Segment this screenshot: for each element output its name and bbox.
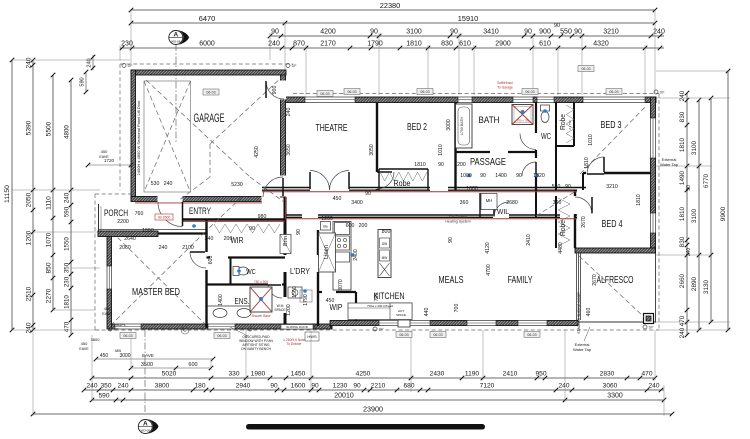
svg-text:06-03: 06-03 xyxy=(581,67,590,71)
svg-text:470: 470 xyxy=(679,315,686,326)
svg-text:440: 440 xyxy=(424,308,430,317)
svg-text:3210: 3210 xyxy=(603,29,619,36)
svg-text:15910: 15910 xyxy=(458,14,479,23)
svg-text:2170: 2170 xyxy=(320,41,336,48)
svg-text:THEATRE: THEATRE xyxy=(316,123,348,134)
svg-text:4800: 4800 xyxy=(64,125,71,139)
svg-text:To Garage: To Garage xyxy=(497,86,513,90)
svg-text:DP: DP xyxy=(649,326,655,330)
svg-text:BATH: BATH xyxy=(479,115,500,126)
svg-text:GARAGE: GARAGE xyxy=(194,111,225,125)
svg-text:6470: 6470 xyxy=(199,14,215,23)
svg-text:BED 3: BED 3 xyxy=(601,120,622,131)
svg-text:830: 830 xyxy=(441,41,453,48)
svg-text:240: 240 xyxy=(64,192,71,203)
svg-text:3210: 3210 xyxy=(606,184,618,190)
svg-text:4700: 4700 xyxy=(486,264,492,276)
svg-text:600: 600 xyxy=(208,256,214,265)
svg-text:850: 850 xyxy=(46,262,53,273)
svg-text:06-03: 06-03 xyxy=(527,333,536,337)
svg-text:2210: 2210 xyxy=(371,383,386,390)
svg-text:ENTRY: ENTRY xyxy=(189,206,211,216)
svg-text:90: 90 xyxy=(438,162,444,168)
svg-text:2510: 2510 xyxy=(26,286,33,301)
svg-text:1400: 1400 xyxy=(495,173,507,179)
svg-text:3000: 3000 xyxy=(119,353,130,359)
svg-text:3400: 3400 xyxy=(351,200,363,206)
svg-text:5020: 5020 xyxy=(162,371,177,378)
svg-text:06-03: 06-03 xyxy=(609,90,618,94)
svg-text:Water Tap: Water Tap xyxy=(573,347,592,352)
svg-text:3100: 3100 xyxy=(691,208,698,223)
svg-text:ENS.: ENS. xyxy=(235,296,250,306)
svg-text:DW: DW xyxy=(382,242,387,246)
svg-text:450: 450 xyxy=(333,196,342,202)
svg-text:4250: 4250 xyxy=(254,146,260,158)
svg-text:590: 590 xyxy=(80,77,86,86)
svg-text:700w x 290 O/head: 700w x 290 O/head xyxy=(367,304,393,308)
svg-text:750 x 750: 750 x 750 xyxy=(517,119,530,123)
svg-text:STACKER SLIDING DOOR: STACKER SLIDING DOOR xyxy=(577,292,581,334)
svg-text:1820: 1820 xyxy=(533,173,545,179)
svg-text:ALFRESCO: ALFRESCO xyxy=(597,275,634,286)
svg-text:90: 90 xyxy=(249,226,255,232)
svg-text:1560: 1560 xyxy=(292,286,298,298)
svg-text:2060: 2060 xyxy=(119,245,131,251)
svg-text:90: 90 xyxy=(296,229,302,235)
svg-text:1810: 1810 xyxy=(414,162,426,168)
svg-text:3500: 3500 xyxy=(141,362,153,368)
svg-text:90: 90 xyxy=(365,191,371,197)
svg-text:240: 240 xyxy=(87,58,93,67)
svg-text:G: G xyxy=(183,328,187,333)
svg-text:90: 90 xyxy=(554,23,560,29)
svg-text:3070: 3070 xyxy=(338,279,344,291)
svg-text:WC: WC xyxy=(246,267,256,276)
svg-text:240: 240 xyxy=(679,90,686,101)
svg-text:90: 90 xyxy=(353,383,361,390)
svg-text:550: 550 xyxy=(560,29,572,36)
svg-text:1810: 1810 xyxy=(584,157,590,169)
svg-text:90: 90 xyxy=(516,173,522,179)
svg-text:06-03: 06-03 xyxy=(433,333,442,337)
svg-text:MW: MW xyxy=(382,256,388,260)
svg-text:3300: 3300 xyxy=(607,393,623,400)
svg-text:2100: 2100 xyxy=(182,245,194,251)
svg-text:530: 530 xyxy=(151,181,160,187)
svg-text:360: 360 xyxy=(553,200,562,206)
svg-text:DP: DP xyxy=(254,328,260,332)
svg-text:Soffit/Insul: Soffit/Insul xyxy=(497,81,513,85)
svg-text:1010: 1010 xyxy=(438,144,444,156)
svg-text:240: 240 xyxy=(648,383,659,390)
svg-text:240: 240 xyxy=(558,383,569,390)
svg-text:2890: 2890 xyxy=(691,276,698,291)
svg-text:470: 470 xyxy=(641,371,652,378)
svg-text:1810: 1810 xyxy=(64,295,71,309)
svg-text:240: 240 xyxy=(26,322,33,333)
svg-text:590: 590 xyxy=(64,206,71,217)
svg-text:240: 240 xyxy=(159,245,168,251)
svg-text:DP: DP xyxy=(128,64,134,68)
svg-text:980: 980 xyxy=(258,214,267,220)
svg-text:9900: 9900 xyxy=(720,206,727,221)
svg-text:3100: 3100 xyxy=(406,29,422,36)
svg-text:1230: 1230 xyxy=(333,383,348,390)
svg-text:FAMILY: FAMILY xyxy=(508,275,533,286)
svg-text:1550: 1550 xyxy=(142,228,154,234)
svg-text:11150: 11150 xyxy=(4,185,11,203)
svg-text:240: 240 xyxy=(679,327,686,338)
svg-text:20010: 20010 xyxy=(334,393,354,400)
svg-text:600: 600 xyxy=(188,362,197,368)
svg-text:90: 90 xyxy=(270,383,278,390)
svg-text:830: 830 xyxy=(679,236,686,247)
svg-text:Shower Base: Shower Base xyxy=(252,314,271,318)
svg-text:90: 90 xyxy=(450,29,458,36)
svg-text:2 x 750: 2 x 750 xyxy=(568,120,572,130)
svg-text:DP: DP xyxy=(660,91,666,95)
svg-text:450: 450 xyxy=(326,298,335,304)
svg-text:450: 450 xyxy=(101,149,108,154)
svg-text:5500: 5500 xyxy=(46,121,53,136)
svg-text:SPACE: SPACE xyxy=(274,308,286,312)
svg-text:90: 90 xyxy=(271,29,279,36)
svg-text:MEALS: MEALS xyxy=(439,275,464,286)
svg-text:DP: DP xyxy=(292,64,298,68)
svg-text:5390: 5390 xyxy=(26,120,33,135)
svg-text:To Drawer: To Drawer xyxy=(286,342,302,346)
svg-text:6770: 6770 xyxy=(703,173,710,188)
svg-text:WD-08: WD-08 xyxy=(171,40,181,44)
svg-text:240: 240 xyxy=(117,383,128,390)
svg-text:460: 460 xyxy=(586,308,592,317)
svg-text:90: 90 xyxy=(686,185,692,191)
svg-text:450: 450 xyxy=(81,341,88,346)
svg-text:06-03: 06-03 xyxy=(525,90,534,94)
svg-text:1010: 1010 xyxy=(588,134,594,146)
svg-text:06-03: 06-03 xyxy=(420,90,429,94)
svg-text:200: 200 xyxy=(224,236,233,242)
svg-text:HB&Ps: HB&Ps xyxy=(115,323,126,327)
svg-text:1490: 1490 xyxy=(679,170,686,185)
svg-text:2640: 2640 xyxy=(124,236,136,242)
svg-text:950: 950 xyxy=(535,371,546,378)
svg-text:90: 90 xyxy=(370,29,378,36)
svg-text:06-03: 06-03 xyxy=(217,334,226,338)
svg-text:3800: 3800 xyxy=(155,383,170,390)
svg-text:240: 240 xyxy=(26,57,33,68)
svg-text:BED 2: BED 2 xyxy=(407,122,427,133)
svg-text:4480: 4480 xyxy=(558,242,564,254)
svg-text:700: 700 xyxy=(454,304,460,313)
svg-text:2900: 2900 xyxy=(495,41,511,48)
svg-text:1110: 1110 xyxy=(46,196,53,210)
svg-text:7120: 7120 xyxy=(480,383,495,390)
svg-text:2670: 2670 xyxy=(592,274,598,286)
svg-text:870: 870 xyxy=(293,41,305,48)
svg-text:2400H x 4800 W Sectional Panel: 2400H x 4800 W Sectional Panel Lift Door xyxy=(136,100,141,176)
svg-text:2430: 2430 xyxy=(430,371,445,378)
svg-text:MH: MH xyxy=(486,198,493,203)
svg-text:4250: 4250 xyxy=(356,371,371,378)
svg-text:SLIDING DOOR: SLIDING DOOR xyxy=(286,325,309,329)
svg-text:DP: DP xyxy=(114,328,120,332)
svg-text:3650: 3650 xyxy=(286,144,292,156)
svg-text:1600: 1600 xyxy=(291,383,306,390)
svg-text:1450: 1450 xyxy=(291,371,306,378)
svg-text:ON VANITY BENCH: ON VANITY BENCH xyxy=(241,347,272,351)
svg-text:180: 180 xyxy=(194,383,205,390)
svg-text:900: 900 xyxy=(272,86,278,95)
svg-text:1550: 1550 xyxy=(64,237,71,251)
svg-text:Water Tap: Water Tap xyxy=(660,162,679,167)
svg-text:SPACE: SPACE xyxy=(396,313,406,317)
svg-text:1200: 1200 xyxy=(321,216,333,222)
svg-text:06-03: 06-03 xyxy=(206,91,215,95)
svg-text:1400: 1400 xyxy=(218,294,224,306)
svg-text:EAVE: EAVE xyxy=(142,353,154,358)
svg-text:90: 90 xyxy=(480,173,486,179)
svg-text:610: 610 xyxy=(459,41,471,48)
svg-text:06-03: 06-03 xyxy=(347,90,356,94)
svg-text:06-03: 06-03 xyxy=(320,92,329,96)
svg-text:450: 450 xyxy=(104,306,111,311)
svg-text:2830: 2830 xyxy=(600,371,615,378)
svg-text:3050: 3050 xyxy=(369,144,375,156)
svg-text:2670: 2670 xyxy=(581,216,587,228)
svg-text:200: 200 xyxy=(359,223,368,229)
svg-text:3100: 3100 xyxy=(691,140,698,155)
svg-text:1200: 1200 xyxy=(286,304,292,316)
svg-text:1810: 1810 xyxy=(679,206,686,221)
svg-text:Linen: Linen xyxy=(324,245,330,259)
svg-text:Robe: Robe xyxy=(558,220,567,236)
svg-text:2400: 2400 xyxy=(353,249,359,261)
svg-text:PASSAGE: PASSAGE xyxy=(470,157,506,168)
svg-text:L'DRY: L'DRY xyxy=(290,266,310,276)
svg-text:700: 700 xyxy=(374,293,380,302)
svg-text:3130: 3130 xyxy=(703,279,710,294)
svg-text:6000: 6000 xyxy=(199,41,215,48)
svg-text:Brm: Brm xyxy=(283,236,289,247)
svg-text:680: 680 xyxy=(403,383,414,390)
svg-text:1700 BATH: 1700 BATH xyxy=(460,116,464,135)
svg-text:Robe: Robe xyxy=(394,178,411,188)
svg-text:2200: 2200 xyxy=(117,219,129,225)
svg-text:06-03: 06-03 xyxy=(123,334,132,338)
svg-text:350: 350 xyxy=(100,383,111,390)
svg-text:DP: DP xyxy=(379,328,385,332)
svg-text:450: 450 xyxy=(100,353,109,359)
svg-text:610: 610 xyxy=(539,41,551,48)
svg-text:1980: 1980 xyxy=(251,371,266,378)
svg-text:90: 90 xyxy=(565,184,571,190)
svg-text:830: 830 xyxy=(679,111,686,122)
svg-text:5230: 5230 xyxy=(231,182,243,188)
svg-text:1810: 1810 xyxy=(406,41,422,48)
svg-text:WIR: WIR xyxy=(231,235,244,245)
svg-text:4120: 4120 xyxy=(485,242,491,254)
svg-text:WC: WC xyxy=(541,132,551,141)
svg-text:EAVE: EAVE xyxy=(102,312,112,316)
svg-text:MB: MB xyxy=(115,348,121,353)
svg-text:1000: 1000 xyxy=(466,186,478,192)
svg-text:2410: 2410 xyxy=(503,371,518,378)
svg-text:1810: 1810 xyxy=(636,194,642,206)
svg-text:1200: 1200 xyxy=(454,162,466,168)
svg-text:1200: 1200 xyxy=(26,230,33,245)
svg-text:330: 330 xyxy=(228,371,239,378)
svg-text:360: 360 xyxy=(460,200,469,206)
svg-text:230: 230 xyxy=(64,276,71,287)
svg-text:1790: 1790 xyxy=(367,41,383,48)
svg-text:240: 240 xyxy=(205,236,214,242)
svg-text:600: 600 xyxy=(346,223,355,229)
svg-text:4200: 4200 xyxy=(320,29,336,36)
svg-text:EAVE: EAVE xyxy=(79,347,89,351)
svg-text:800: 800 xyxy=(382,229,391,235)
svg-text:PORCH: PORCH xyxy=(104,208,128,218)
svg-text:2270: 2270 xyxy=(46,288,53,303)
svg-text:240: 240 xyxy=(286,108,292,117)
svg-text:2050: 2050 xyxy=(26,192,33,207)
svg-text:1810: 1810 xyxy=(679,137,686,152)
svg-text:470: 470 xyxy=(64,321,71,332)
svg-text:2680: 2680 xyxy=(506,200,518,206)
svg-text:22380: 22380 xyxy=(380,1,401,10)
svg-text:1000: 1000 xyxy=(460,173,472,179)
svg-text:Ba: Ba xyxy=(323,225,327,229)
svg-text:2660: 2660 xyxy=(679,273,686,288)
svg-text:760: 760 xyxy=(135,211,144,217)
svg-text:350: 350 xyxy=(64,262,71,273)
svg-text:550: 550 xyxy=(552,184,561,190)
svg-text:90: 90 xyxy=(448,237,454,243)
svg-text:240: 240 xyxy=(164,181,173,187)
svg-text:3800: 3800 xyxy=(91,337,101,342)
svg-text:900: 900 xyxy=(539,29,551,36)
svg-text:WIL: WIL xyxy=(497,209,509,216)
svg-text:2410: 2410 xyxy=(526,234,532,246)
svg-text:BED 4: BED 4 xyxy=(602,219,623,230)
svg-text:MASTER BED: MASTER BED xyxy=(132,287,180,298)
svg-text:JB-2600: JB-2600 xyxy=(158,216,171,220)
svg-text:590: 590 xyxy=(98,393,109,400)
svg-text:90: 90 xyxy=(524,29,532,36)
svg-text:Heating System: Heating System xyxy=(445,220,470,224)
svg-text:1190: 1190 xyxy=(465,371,480,378)
svg-text:For Ducted: For Ducted xyxy=(449,215,467,219)
svg-text:1070: 1070 xyxy=(46,232,53,247)
svg-text:1720: 1720 xyxy=(104,158,115,163)
svg-text:Robe: Robe xyxy=(558,114,567,130)
svg-text:90: 90 xyxy=(574,29,582,36)
svg-text:3000: 3000 xyxy=(446,119,452,131)
svg-text:23900: 23900 xyxy=(363,405,383,414)
svg-text:750 x 900: 750 x 900 xyxy=(254,280,268,284)
svg-text:WD-08: WD-08 xyxy=(141,429,151,433)
svg-text:2940: 2940 xyxy=(236,383,251,390)
svg-text:06-03: 06-03 xyxy=(399,333,408,337)
svg-text:3060: 3060 xyxy=(603,383,618,390)
svg-text:1790: 1790 xyxy=(303,294,309,306)
svg-text:HWS: HWS xyxy=(307,334,317,339)
svg-text:4320: 4320 xyxy=(593,41,609,48)
svg-text:3410: 3410 xyxy=(483,29,499,36)
